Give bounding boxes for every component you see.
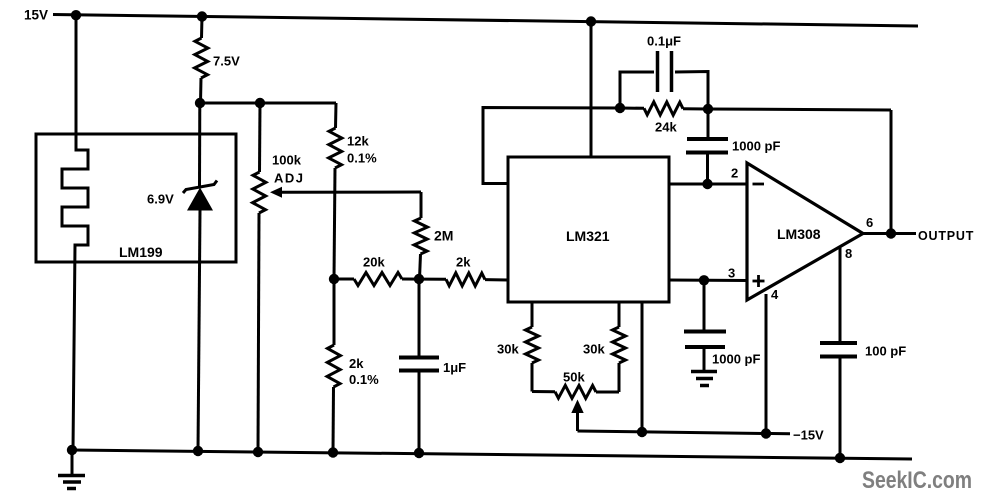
svg-text:LM199: LM199 [119,244,163,260]
svg-text:30k: 30k [497,342,519,357]
svg-text:100 pF: 100 pF [865,344,906,359]
svg-text:15V: 15V [24,8,48,23]
svg-text:7.5V: 7.5V [213,54,240,69]
svg-text:SeekIC.com: SeekIC.com [862,467,972,494]
svg-text:4: 4 [771,287,779,302]
svg-text:1000 pF: 1000 pF [732,139,780,154]
svg-text:50k: 50k [563,370,585,385]
svg-text:3: 3 [728,266,735,281]
svg-text:2M: 2M [434,228,453,244]
svg-text:6.9V: 6.9V [147,192,174,207]
svg-text:LM308: LM308 [777,226,821,242]
svg-text:0.1%: 0.1% [349,372,379,387]
svg-text:8: 8 [845,246,852,261]
svg-text:6: 6 [866,215,873,230]
svg-text:24k: 24k [655,120,677,135]
svg-text:100k: 100k [272,153,302,168]
svg-text:ADJ: ADJ [274,171,305,186]
svg-text:−15V: −15V [793,428,824,443]
svg-text:1000 pF: 1000 pF [712,352,760,367]
svg-text:2k: 2k [349,356,364,371]
svg-text:OUTPUT: OUTPUT [918,229,974,243]
svg-text:2: 2 [731,166,738,181]
svg-text:12k: 12k [347,134,369,149]
svg-text:1μF: 1μF [443,360,466,375]
svg-text:20k: 20k [363,255,385,270]
svg-text:0.1μF: 0.1μF [647,34,681,49]
svg-text:0.1%: 0.1% [347,151,377,166]
svg-text:2k: 2k [456,255,471,270]
svg-text:LM321: LM321 [566,228,610,244]
svg-text:30k: 30k [583,342,605,357]
